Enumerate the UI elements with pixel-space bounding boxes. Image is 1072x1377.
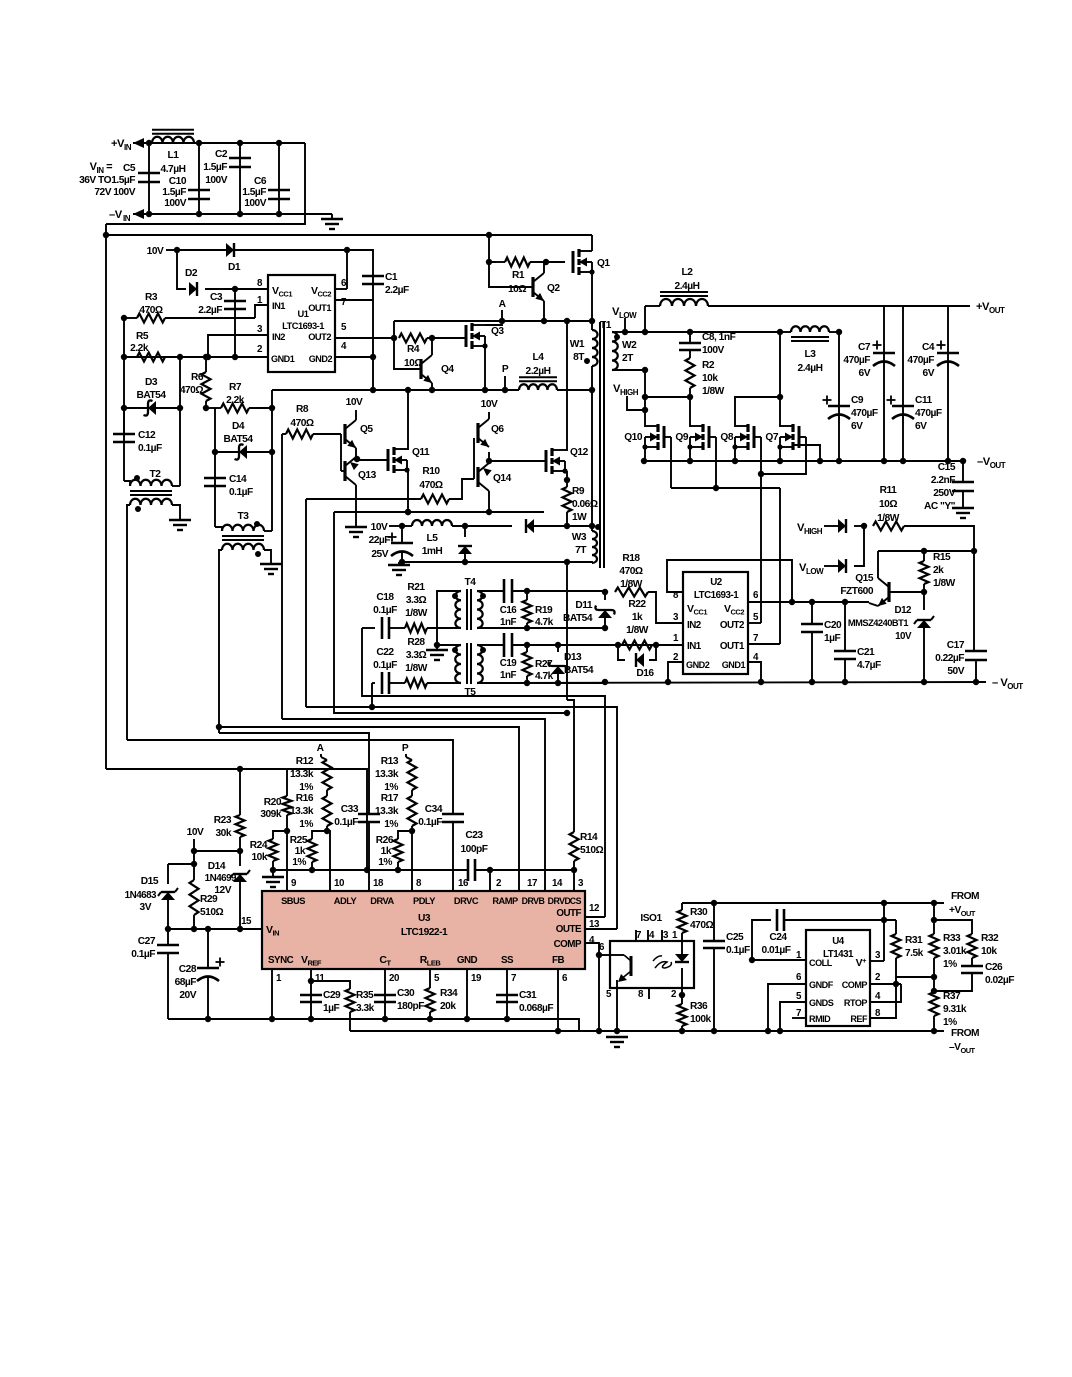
svg-text:W2: W2 xyxy=(622,340,637,351)
svg-text:100pF: 100pF xyxy=(461,844,488,855)
wire Q6/Q14 emitters to Q12 gate xyxy=(488,452,490,461)
svg-text:C30: C30 xyxy=(397,988,415,999)
svg-text:L2: L2 xyxy=(682,267,694,278)
inductor L4 xyxy=(519,384,557,390)
svg-text:10V: 10V xyxy=(371,522,388,533)
diode D1 xyxy=(177,249,347,251)
svg-text:FB: FB xyxy=(552,955,564,966)
wire W3 return rail xyxy=(399,561,567,563)
svg-text:470µF: 470µF xyxy=(915,408,942,419)
wire Q4 emitter xyxy=(431,383,433,390)
svg-text:20: 20 xyxy=(389,973,400,984)
svg-text:T4: T4 xyxy=(465,577,477,588)
wire ISO1 pin2 xyxy=(681,988,683,995)
svg-text:3V: 3V xyxy=(140,902,152,913)
resistor R2 xyxy=(689,350,691,358)
svg-text:100V: 100V xyxy=(702,345,724,356)
svg-text:L5: L5 xyxy=(427,533,439,544)
svg-text:100k: 100k xyxy=(690,1014,711,1025)
wire bus C22/OUTE xyxy=(371,683,373,707)
svg-text:1nF: 1nF xyxy=(500,617,516,628)
T5 sec wires xyxy=(477,644,504,646)
T4 sec wires xyxy=(477,590,504,592)
svg-text:SBUS: SBUS xyxy=(281,896,305,906)
T3 secondary left wire to bus xyxy=(219,550,222,733)
svg-text:1%: 1% xyxy=(378,857,392,868)
svg-text:C34: C34 xyxy=(425,804,443,815)
svg-text:C33: C33 xyxy=(341,804,359,815)
wire Q4 base xyxy=(394,338,421,369)
T1 core xyxy=(599,322,601,568)
svg-text:BAT54: BAT54 xyxy=(223,434,253,445)
svg-text:10k: 10k xyxy=(981,946,997,957)
wire RTOP pin4 xyxy=(870,984,901,1002)
svg-text:2.4µH: 2.4µH xyxy=(798,363,823,374)
capacitor C3 xyxy=(234,289,236,357)
svg-text:1.5µF: 1.5µF xyxy=(111,175,135,186)
svg-text:RAMP: RAMP xyxy=(492,896,518,906)
wire 10V bus lower xyxy=(106,768,287,770)
svg-text:510Ω: 510Ω xyxy=(200,907,223,918)
svg-text:R9: R9 xyxy=(572,486,585,497)
svg-text:C7: C7 xyxy=(858,342,871,353)
capacitor C1 xyxy=(347,250,373,390)
ground T4 T5 center xyxy=(434,642,440,648)
svg-text:Q13: Q13 xyxy=(358,470,377,481)
wire VHIGH row xyxy=(644,370,646,410)
capacitor C12 xyxy=(123,408,125,481)
svg-text:1µF: 1µF xyxy=(824,633,841,644)
wire VCC1 pin8 over the top xyxy=(667,560,792,602)
svg-text:D1: D1 xyxy=(228,262,241,273)
svg-text:R3: R3 xyxy=(145,292,158,303)
resistor R15 xyxy=(921,548,927,554)
wire Q7 source right xyxy=(793,445,820,461)
wire 10V node xyxy=(166,249,177,251)
svg-text:1%: 1% xyxy=(299,819,313,830)
resistor R32 xyxy=(934,920,972,934)
wire V+ pin3 xyxy=(870,960,884,962)
svg-text:GND: GND xyxy=(457,955,478,966)
resistor R14 xyxy=(570,832,579,861)
svg-text:R23: R23 xyxy=(214,815,232,826)
svg-text:10Ω: 10Ω xyxy=(508,284,526,295)
diode VLOW xyxy=(824,565,838,567)
svg-text:10V: 10V xyxy=(895,631,912,642)
wire -VOUT rail upper xyxy=(644,460,963,462)
node P line with L4 xyxy=(272,389,519,391)
resistor R27 xyxy=(524,642,530,648)
wire ISO1 pin6 collector xyxy=(599,954,610,956)
svg-text:U1: U1 xyxy=(298,309,309,319)
capacitor C21 xyxy=(844,602,846,651)
transistor Q5 xyxy=(343,424,346,444)
resistor R5 xyxy=(137,353,165,362)
wire P node to R7/D4/T3 xyxy=(271,390,273,531)
svg-text:C3: C3 xyxy=(210,292,223,303)
wire VREF pin11 xyxy=(310,969,312,1019)
capacitor C31 xyxy=(496,994,518,997)
svg-text:3.3k: 3.3k xyxy=(356,1003,375,1014)
wire Q6 collector 10V xyxy=(488,412,490,419)
svg-text:A: A xyxy=(499,299,507,310)
capacitor C23 xyxy=(467,859,470,881)
svg-text:R25: R25 xyxy=(290,835,308,846)
svg-text:1nF: 1nF xyxy=(500,670,516,681)
wire RMID pin7 stub xyxy=(792,1017,806,1019)
resistor R19 xyxy=(524,588,530,594)
svg-text:C27: C27 xyxy=(138,936,156,947)
svg-text:SS: SS xyxy=(501,955,514,966)
wire FROM +VOUT rail xyxy=(682,902,944,904)
svg-text:SYNC: SYNC xyxy=(268,955,294,966)
diode D16 xyxy=(618,645,625,660)
IC U3 LTC1922-1 xyxy=(262,891,585,969)
svg-text:17: 17 xyxy=(527,878,538,889)
svg-text:4.7µF: 4.7µF xyxy=(857,660,881,671)
capacitor C5 xyxy=(148,143,150,214)
wire right side down xyxy=(106,143,305,224)
svg-text:R11: R11 xyxy=(880,485,897,496)
svg-text:DRVA: DRVA xyxy=(370,896,394,906)
wire gate bus down to U2 OUT1 xyxy=(779,488,781,644)
wire GND1 pin4 xyxy=(748,662,761,682)
svg-text:R12: R12 xyxy=(296,756,314,767)
svg-text:GND2: GND2 xyxy=(309,354,333,364)
svg-text:1%: 1% xyxy=(943,1017,957,1028)
svg-text:R30: R30 xyxy=(690,907,708,918)
svg-text:Q3: Q3 xyxy=(491,326,504,337)
wire Q12 source to R9 xyxy=(565,470,567,472)
svg-text:470µF: 470µF xyxy=(843,355,870,366)
svg-text:1/8W: 1/8W xyxy=(405,608,428,619)
svg-text:OUTF: OUTF xyxy=(556,908,581,919)
svg-text:Q6: Q6 xyxy=(491,424,504,435)
svg-text:7.5k: 7.5k xyxy=(905,948,924,959)
wire GNDS pin5 xyxy=(780,1002,806,1031)
svg-text:D2: D2 xyxy=(185,268,198,279)
svg-text:30k: 30k xyxy=(216,828,232,839)
node A line xyxy=(394,320,592,322)
resistor R21 xyxy=(405,624,427,633)
resistor R13 xyxy=(408,760,417,790)
resistor R6 xyxy=(202,372,211,401)
svg-text:Q2: Q2 xyxy=(547,283,560,294)
resistor R34 xyxy=(429,969,431,988)
svg-text:GND1: GND1 xyxy=(722,660,746,670)
svg-text:Q15: Q15 xyxy=(855,573,874,584)
svg-text:Q4: Q4 xyxy=(441,364,454,375)
svg-text:4.7k: 4.7k xyxy=(535,671,554,682)
svg-text:C16: C16 xyxy=(500,605,518,616)
svg-text:FROM: FROM xyxy=(951,891,979,902)
svg-text:Q10: Q10 xyxy=(624,432,643,443)
svg-text:COLL: COLL xyxy=(809,958,833,968)
svg-text:ISO1: ISO1 xyxy=(640,913,662,924)
svg-text:1%: 1% xyxy=(292,857,306,868)
svg-text:R35: R35 xyxy=(356,990,374,1001)
wire PDLY pin8 xyxy=(411,831,413,891)
wire OUTF pin12 xyxy=(585,916,605,918)
svg-text:2.2µH: 2.2µH xyxy=(526,366,551,377)
IC U2 LTC1693-1 xyxy=(683,572,748,674)
svg-text:C17: C17 xyxy=(947,640,965,651)
svg-text:100V: 100V xyxy=(164,198,186,209)
svg-text:470Ω: 470Ω xyxy=(180,385,203,396)
svg-text:1k: 1k xyxy=(381,846,392,857)
wire left bus x124 xyxy=(123,318,125,434)
wire OUT1 pin7 xyxy=(335,299,373,301)
diode D2 xyxy=(189,282,197,296)
MOSFET Q9 xyxy=(708,426,711,448)
capacitor C2 xyxy=(239,143,241,214)
svg-text:100V: 100V xyxy=(244,198,266,209)
wire SYNC pin1 xyxy=(271,969,273,1019)
svg-text:8T: 8T xyxy=(573,352,585,363)
zener D14 xyxy=(239,851,241,866)
svg-text:L4: L4 xyxy=(533,352,545,363)
wire GNDF pin6 xyxy=(768,984,806,1031)
wire -VOUT lower rail xyxy=(477,682,986,683)
inductor L3 xyxy=(791,326,829,332)
wire bus C18/OUTF xyxy=(362,628,605,917)
svg-text:R21: R21 xyxy=(407,582,425,593)
svg-text:U2: U2 xyxy=(710,577,723,588)
diode D13 BAT54 xyxy=(555,642,561,648)
svg-text:11: 11 xyxy=(315,973,325,984)
svg-text:12: 12 xyxy=(589,903,600,914)
capacitor C7 xyxy=(883,306,885,461)
svg-text:1.5µF: 1.5µF xyxy=(242,187,266,198)
wire D15 branch xyxy=(193,851,195,864)
wire Q5/Q13 base tie xyxy=(340,434,342,471)
zener D15 xyxy=(167,864,169,884)
svg-text:U3: U3 xyxy=(418,913,431,924)
inductor L2 xyxy=(660,299,708,306)
R8 left bus down to DRVD xyxy=(281,434,283,719)
svg-text:LTC1693-1: LTC1693-1 xyxy=(282,321,324,331)
transformer T1 primary W1 xyxy=(591,320,593,330)
wire Q7 gate down xyxy=(799,436,806,438)
svg-text:R26: R26 xyxy=(376,835,394,846)
resistor R4 xyxy=(399,334,427,343)
svg-text:REF: REF xyxy=(850,1014,868,1024)
wire COLL pin1 xyxy=(752,959,806,961)
svg-text:0.01µF: 0.01µF xyxy=(762,945,791,956)
transistor Q3 MOSFET xyxy=(465,325,468,347)
svg-text:W1: W1 xyxy=(570,339,585,350)
svg-text:GND2: GND2 xyxy=(686,660,710,670)
svg-text:1N4699: 1N4699 xyxy=(205,873,237,884)
svg-text:R36: R36 xyxy=(690,1001,708,1012)
wire VLOW row xyxy=(625,331,780,333)
svg-text:R1: R1 xyxy=(512,270,525,281)
svg-text:R33: R33 xyxy=(943,933,961,944)
svg-text:C23: C23 xyxy=(465,830,483,841)
capacitor C26 xyxy=(971,958,973,966)
wire bus T3 to DRVA xyxy=(219,733,369,814)
svg-text:DRVB: DRVB xyxy=(522,896,545,906)
svg-text:U4: U4 xyxy=(832,936,845,947)
svg-text:250V: 250V xyxy=(933,488,955,499)
wire CS sense down xyxy=(566,562,568,700)
svg-text:ADLY: ADLY xyxy=(334,896,358,906)
svg-text:Q8: Q8 xyxy=(720,432,733,443)
wire GND1 pin2 xyxy=(124,356,268,358)
wire IN2 pin3 xyxy=(208,335,268,357)
svg-text:D3: D3 xyxy=(145,377,158,388)
svg-text:2.2k: 2.2k xyxy=(130,343,149,354)
resistor R28 xyxy=(405,679,427,688)
wire OUT2 up to node A line xyxy=(393,321,395,338)
T3 secondary right to ground xyxy=(264,550,271,564)
svg-text:R32: R32 xyxy=(981,933,999,944)
wire Q8 gate down xyxy=(754,436,761,438)
svg-text:OUTE: OUTE xyxy=(556,924,582,935)
svg-text:10Ω: 10Ω xyxy=(879,499,897,510)
svg-text:IN2: IN2 xyxy=(687,620,702,631)
svg-text:C2: C2 xyxy=(215,149,228,160)
svg-text:100V: 100V xyxy=(205,175,227,186)
svg-text:1/8W: 1/8W xyxy=(626,625,649,636)
wire bus T3/DRVB xyxy=(219,727,519,891)
svg-text:R5: R5 xyxy=(136,331,149,342)
wire IN1 xyxy=(656,644,683,646)
svg-text:0.1µF: 0.1µF xyxy=(373,605,397,616)
svg-text:FZT600: FZT600 xyxy=(840,586,874,597)
resistor R10 xyxy=(421,495,449,504)
svg-text:T3: T3 xyxy=(238,511,250,522)
capacitor C4 xyxy=(947,306,949,461)
svg-text:3.01k: 3.01k xyxy=(943,946,967,957)
capacitor C17 xyxy=(973,551,975,651)
resistor R36 xyxy=(678,1004,687,1026)
transistor Q1 MOSFET xyxy=(572,251,575,273)
svg-text:1/8W: 1/8W xyxy=(405,663,428,674)
svg-text:OUT2: OUT2 xyxy=(308,332,331,342)
svg-text:+V: +V xyxy=(111,138,125,150)
wire Q2 base xyxy=(489,262,533,287)
diode D11 BAT54 xyxy=(602,589,608,595)
svg-text:R29: R29 xyxy=(200,894,218,905)
svg-text:C5: C5 xyxy=(123,163,136,174)
svg-text:10k: 10k xyxy=(702,373,718,384)
T2 secondary left wire to bus xyxy=(127,505,130,740)
svg-text:R27: R27 xyxy=(535,659,553,670)
wire Q12 drain to A line xyxy=(565,321,567,450)
svg-text:BAT54: BAT54 xyxy=(563,613,593,624)
wire Q5 collector 10V xyxy=(355,410,357,420)
svg-text:A: A xyxy=(317,743,325,754)
svg-text:LTC1693-1: LTC1693-1 xyxy=(694,590,739,601)
svg-text:0.1µF: 0.1µF xyxy=(229,487,253,498)
svg-text:2.2µF: 2.2µF xyxy=(198,305,222,316)
svg-text:20V: 20V xyxy=(179,990,196,1001)
resistor R33 xyxy=(933,903,935,934)
capacitor C9 xyxy=(838,332,840,461)
svg-text:R10: R10 xyxy=(422,466,440,477)
svg-text:C14: C14 xyxy=(229,474,247,485)
svg-text:4.7k: 4.7k xyxy=(535,617,554,628)
wire Q7 source xyxy=(779,447,781,461)
wire -VIN bottom rail xyxy=(133,213,332,215)
zener D12 xyxy=(923,592,925,610)
wire Q8 source xyxy=(734,447,736,461)
svg-text:C8, 1nF: C8, 1nF xyxy=(702,332,736,343)
svg-text:R20: R20 xyxy=(264,797,282,808)
wire bus ground from input to control gnd xyxy=(106,769,367,870)
wire bus T2/DRVC xyxy=(127,740,453,814)
svg-text:22µF: 22µF xyxy=(369,535,391,546)
resistor R11 xyxy=(873,522,904,531)
svg-text:D12: D12 xyxy=(895,605,913,616)
svg-text:14: 14 xyxy=(552,878,563,889)
diode D3 BAT54 xyxy=(124,407,180,409)
wire VIN pin15 xyxy=(168,928,262,930)
svg-text:0.1µF: 0.1µF xyxy=(726,945,750,956)
svg-text:C18: C18 xyxy=(376,592,394,603)
wire Q9 gate bus xyxy=(709,436,716,438)
resistor R18 xyxy=(615,588,648,597)
wire FB line xyxy=(350,1030,599,1032)
transistor Q4 xyxy=(419,359,422,379)
wire VLOW stub xyxy=(624,318,626,332)
svg-text:50V: 50V xyxy=(947,666,964,677)
wire R18 to IN2 xyxy=(648,592,683,623)
svg-text:9.31k: 9.31k xyxy=(943,1004,967,1015)
ISO1 pin stubs top xyxy=(635,930,637,941)
wire COMP pin2 xyxy=(870,983,901,985)
svg-text:L3: L3 xyxy=(805,349,817,360)
svg-text:1N4683: 1N4683 xyxy=(125,890,157,901)
capacitor C8 xyxy=(689,332,691,343)
wire REF pin8 xyxy=(870,961,896,1018)
svg-text:1%: 1% xyxy=(384,819,398,830)
wire Q11 source line xyxy=(334,511,544,513)
svg-text:LTC1922-1: LTC1922-1 xyxy=(401,927,448,938)
ISO1 phototransistor xyxy=(610,954,624,956)
svg-text:0.068µF: 0.068µF xyxy=(519,1003,553,1014)
svg-text:18: 18 xyxy=(373,878,384,889)
node +VIN input terminal xyxy=(133,138,144,148)
svg-text:2k: 2k xyxy=(933,565,944,576)
svg-text:13.3k: 13.3k xyxy=(290,769,314,780)
transistor Q6 xyxy=(476,423,479,443)
capacitor C33 xyxy=(358,813,380,816)
svg-text:470Ω: 470Ω xyxy=(419,480,442,491)
wire Q13 collector to ground xyxy=(355,485,357,527)
ISO1 LED xyxy=(681,941,683,954)
svg-text:1/8W: 1/8W xyxy=(702,386,725,397)
transistor Q2 xyxy=(531,277,534,297)
capacitor C6 xyxy=(278,143,280,214)
svg-text:C24: C24 xyxy=(769,932,787,943)
transistor Q12 MOSFET xyxy=(545,450,548,472)
svg-text:C6: C6 xyxy=(254,176,267,187)
diode catch vertical xyxy=(462,523,468,529)
svg-text:R4: R4 xyxy=(407,344,420,355)
diode VHIGH xyxy=(824,525,838,527)
capacitor C24 xyxy=(752,920,771,960)
svg-text:R7: R7 xyxy=(229,382,242,393)
wire Q2 emitter down xyxy=(543,301,545,321)
svg-text:C20: C20 xyxy=(824,620,842,631)
svg-text:6V: 6V xyxy=(851,421,863,432)
svg-text:1/8W: 1/8W xyxy=(620,579,643,590)
wire Q1 drain xyxy=(591,235,593,251)
resistor R25 xyxy=(312,831,327,839)
wire Q15 emitter to VCC2 line xyxy=(869,603,878,606)
